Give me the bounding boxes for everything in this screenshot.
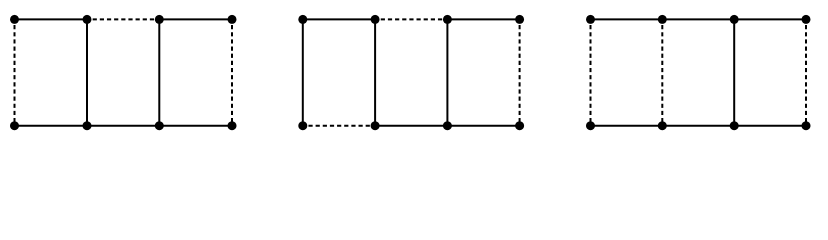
edge G3 bottom B1-B2 (solid) [591,125,663,127]
edge G3 top T3-T4 (solid) [734,18,806,20]
node G1-B1 [10,121,19,130]
node G1-T4 [228,15,237,24]
node G1-B4 [228,121,237,130]
edge G1 top T2-T3 (dashed) [87,18,159,20]
edge G2 top T2-T3 (dashed) [375,18,447,20]
node G3-B1 [586,121,595,130]
edge G3 bottom B3-B4 (solid) [734,125,806,127]
edge G2 bottom B1-B2 (dashed) [303,125,375,127]
edge G1 bottom B3-B4 (solid) [159,125,232,127]
edge G2 bottom B2-B3 (solid) [375,125,447,127]
node G2-T4 [515,15,524,24]
node G2-B1 [298,121,307,130]
edge G1 rung T3-B3 (solid) [158,19,160,125]
node G2-B2 [371,121,380,130]
edge G2 top T3-T4 (solid) [447,18,519,20]
edge G2 rung T1-B1 (solid) [302,19,304,125]
edge G1 bottom B2-B3 (solid) [87,125,159,127]
node G2-B4 [515,121,524,130]
node G1-T2 [83,15,92,24]
node G3-B3 [730,121,739,130]
node G1-T3 [155,15,164,24]
edge G2 rung T2-B2 (solid) [374,19,376,125]
edge G1 rung T1-B1 (dashed) [14,19,16,125]
edge G3 rung T3-B3 (solid) [733,19,735,125]
edge G1 rung T2-B2 (solid) [86,19,88,125]
edge G1 top T1-T2 (solid) [15,18,88,20]
node G2-T2 [371,15,380,24]
node G1-B3 [155,121,164,130]
node G3-T2 [658,15,667,24]
edge G2 rung T4-B4 (dashed) [519,19,521,125]
graph G3 [586,15,811,130]
edge G3 top T2-T3 (solid) [662,18,734,20]
node G1-T1 [10,15,19,24]
edge G2 bottom B3-B4 (solid) [447,125,519,127]
graph G2 [298,15,524,130]
graph G1 [10,15,237,130]
edge G3 top T1-T2 (solid) [591,18,663,20]
edge G1 bottom B1-B2 (solid) [15,125,88,127]
edge G2 top T1-T2 (solid) [303,18,375,20]
edge G3 rung T2-B2 (dashed) [661,19,663,125]
edge G3 rung T4-B4 (dashed) [805,19,807,125]
node G3-T3 [730,15,739,24]
node G2-T3 [443,15,452,24]
node G3-B4 [802,121,811,130]
edge G1 rung T4-B4 (dashed) [231,19,233,125]
node G3-B2 [658,121,667,130]
node G1-B2 [83,121,92,130]
edge G3 bottom B2-B3 (solid) [662,125,734,127]
node G3-T1 [586,15,595,24]
edge G1 top T3-T4 (solid) [159,18,232,20]
edge G2 rung T3-B3 (solid) [446,19,448,125]
node G2-T1 [298,15,307,24]
node G3-T4 [802,15,811,24]
node G2-B3 [443,121,452,130]
edge G3 rung T1-B1 (dashed) [590,19,592,125]
